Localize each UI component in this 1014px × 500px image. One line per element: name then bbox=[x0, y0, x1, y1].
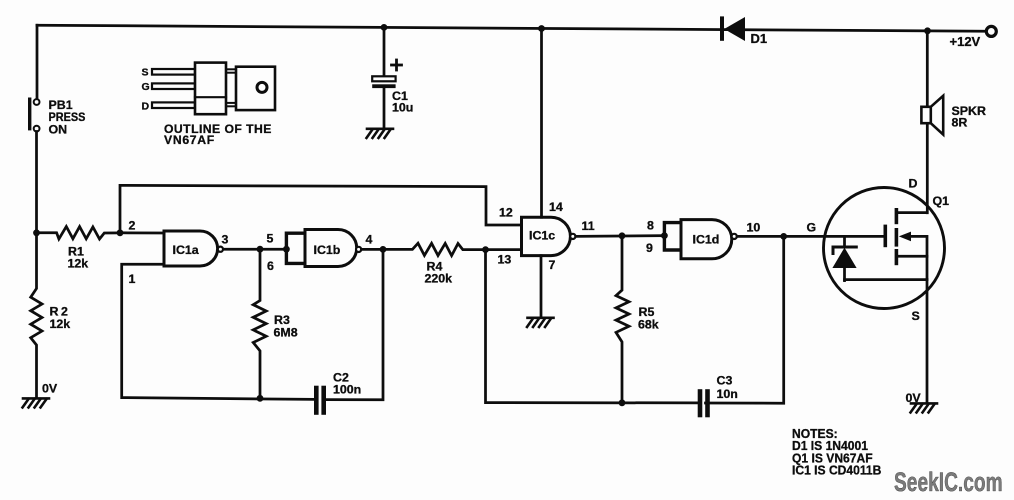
wire PB1 to R1 node bbox=[35, 132, 38, 233]
wire drain line rail to Q1 bbox=[926, 31, 929, 213]
svg-text:7: 7 bbox=[549, 258, 556, 272]
ground under C1 bbox=[367, 129, 394, 138]
wire IC1a pin1 and bottom rail to C2 bbox=[122, 264, 314, 399]
svg-text:IC1b: IC1b bbox=[314, 243, 341, 257]
svg-text:G: G bbox=[142, 81, 150, 93]
gate IC1a bbox=[164, 231, 223, 266]
Q1 source bottom rail bbox=[845, 278, 928, 281]
svg-text:+12V: +12V bbox=[950, 34, 981, 49]
gate IC1b bbox=[305, 230, 361, 267]
svg-text:6M8: 6M8 bbox=[274, 326, 298, 340]
wire pin13 node down and bottom rail to C3 bbox=[486, 250, 698, 403]
ground 0V right bbox=[911, 403, 938, 412]
node PB1-R1-R2 bbox=[33, 229, 40, 236]
wire S line to ground bbox=[926, 280, 929, 402]
node rail-speaker bbox=[924, 27, 931, 34]
Q1 source stub bbox=[896, 255, 927, 258]
ground 0V left bbox=[23, 398, 50, 407]
ground pin7 bbox=[527, 318, 554, 327]
svg-text:12k: 12k bbox=[68, 257, 89, 271]
gate IC1d bbox=[681, 220, 737, 259]
wire C2 right to IC1b out node bbox=[326, 249, 383, 399]
svg-text:Q1: Q1 bbox=[933, 194, 950, 208]
Q1 drain stub bbox=[896, 211, 926, 214]
svg-text:3: 3 bbox=[222, 233, 229, 247]
Q1 protection zener bbox=[832, 247, 856, 281]
svg-text:6: 6 bbox=[267, 259, 274, 273]
wire IC1c pin14 to rail bbox=[540, 29, 543, 218]
svg-text:S: S bbox=[142, 67, 149, 79]
node pin13 bbox=[482, 246, 489, 253]
pushbutton PB1 bbox=[30, 99, 40, 131]
svg-text:8R: 8R bbox=[952, 116, 968, 130]
svg-text:10u: 10u bbox=[392, 101, 413, 115]
Q1 zener drop wire bbox=[843, 236, 846, 246]
wire IC1a out to IC1b in bbox=[223, 248, 285, 251]
svg-text:IC1d: IC1d bbox=[693, 233, 720, 247]
node IC1b out bbox=[380, 246, 387, 253]
svg-text:100n: 100n bbox=[333, 383, 361, 397]
svg-text:10: 10 bbox=[747, 221, 761, 235]
svg-text:IC1c: IC1c bbox=[529, 229, 555, 243]
svg-text:9: 9 bbox=[646, 241, 653, 255]
svg-text:13: 13 bbox=[498, 253, 512, 267]
svg-text:68k: 68k bbox=[638, 318, 659, 332]
node rail-C1 bbox=[381, 24, 388, 31]
svg-text:12k: 12k bbox=[50, 317, 71, 331]
resistor R4 220k bbox=[362, 243, 522, 255]
svg-text:5: 5 bbox=[267, 232, 274, 246]
node R5 bottom bbox=[619, 399, 626, 406]
gate IC1c bbox=[522, 217, 576, 255]
svg-text:0V: 0V bbox=[906, 391, 922, 405]
resistor R5 68k bbox=[616, 236, 629, 403]
wire IC1c out to IC1d in bbox=[576, 234, 665, 238]
svg-text:1: 1 bbox=[129, 272, 136, 286]
wire left drop from rail to PB1 bbox=[36, 25, 39, 99]
svg-text:D: D bbox=[142, 101, 150, 113]
svg-text:D1: D1 bbox=[751, 31, 768, 46]
wire node2 to IC1a pin2 bbox=[120, 231, 165, 234]
resistor R2 12k bbox=[31, 233, 42, 397]
svg-text:14: 14 bbox=[549, 200, 563, 214]
svg-text:G: G bbox=[807, 221, 817, 235]
Q1 channel segments bbox=[895, 210, 899, 264]
svg-text:D: D bbox=[909, 177, 918, 191]
svg-text:4: 4 bbox=[366, 233, 373, 247]
wire C3 right side up to G node bbox=[706, 236, 784, 403]
speaker SPKR 8R bbox=[921, 96, 943, 135]
diode D1 bbox=[722, 17, 745, 41]
svg-text:0V: 0V bbox=[42, 382, 58, 396]
node IC1b in bbox=[283, 246, 290, 253]
wire +12V top rail bbox=[37, 25, 987, 31]
svg-text:S: S bbox=[912, 309, 920, 323]
svg-text:12: 12 bbox=[499, 206, 513, 220]
wire feedback node2 to IC1c pin12 bbox=[120, 185, 522, 232]
svg-text:IC1a: IC1a bbox=[173, 243, 199, 257]
svg-text:10n: 10n bbox=[717, 387, 738, 401]
Q1 gate bar bbox=[883, 226, 887, 245]
svg-text:VN67AF: VN67AF bbox=[164, 133, 215, 147]
transistor Q1 circle bbox=[824, 188, 945, 309]
gate IC1d input bracket pins 8 9 bbox=[664, 223, 681, 250]
svg-text:C3: C3 bbox=[717, 374, 733, 388]
Q1 body stub with arrow bbox=[899, 232, 927, 280]
node IC1d in bbox=[661, 232, 668, 239]
svg-text:220k: 220k bbox=[425, 272, 453, 286]
svg-text:8: 8 bbox=[647, 219, 654, 233]
resistor R3 6M8 bbox=[253, 249, 266, 398]
capacitor C1 10u bbox=[372, 27, 401, 128]
svg-text:2: 2 bbox=[129, 219, 136, 233]
node R5 top bbox=[619, 232, 626, 239]
node R3 bottom bbox=[257, 395, 264, 402]
node rail-pin14 bbox=[538, 25, 545, 32]
svg-text:ON: ON bbox=[49, 123, 68, 137]
capacitor C2 100n bbox=[316, 388, 323, 413]
notes block bbox=[792, 427, 881, 478]
svg-text:SeekIC.com: SeekIC.com bbox=[894, 467, 1003, 497]
node pin2 bbox=[117, 229, 124, 236]
svg-text:11: 11 bbox=[582, 219, 595, 233]
node G bbox=[780, 233, 787, 240]
gate IC1b input bracket pins 5 6 bbox=[286, 233, 305, 263]
VN67AF package outline bbox=[152, 63, 275, 115]
svg-text:IC1 IS CD4011B: IC1 IS CD4011B bbox=[792, 463, 881, 477]
node IC1a out R3 bbox=[257, 246, 264, 253]
resistor R1 12k bbox=[37, 227, 121, 240]
wire IC1c pin7 to ground bbox=[540, 256, 543, 317]
capacitor C3 10n bbox=[700, 392, 708, 416]
terminal +12V bbox=[986, 26, 996, 36]
wire IC1d out / G wire to Q1 gate bbox=[737, 235, 885, 238]
